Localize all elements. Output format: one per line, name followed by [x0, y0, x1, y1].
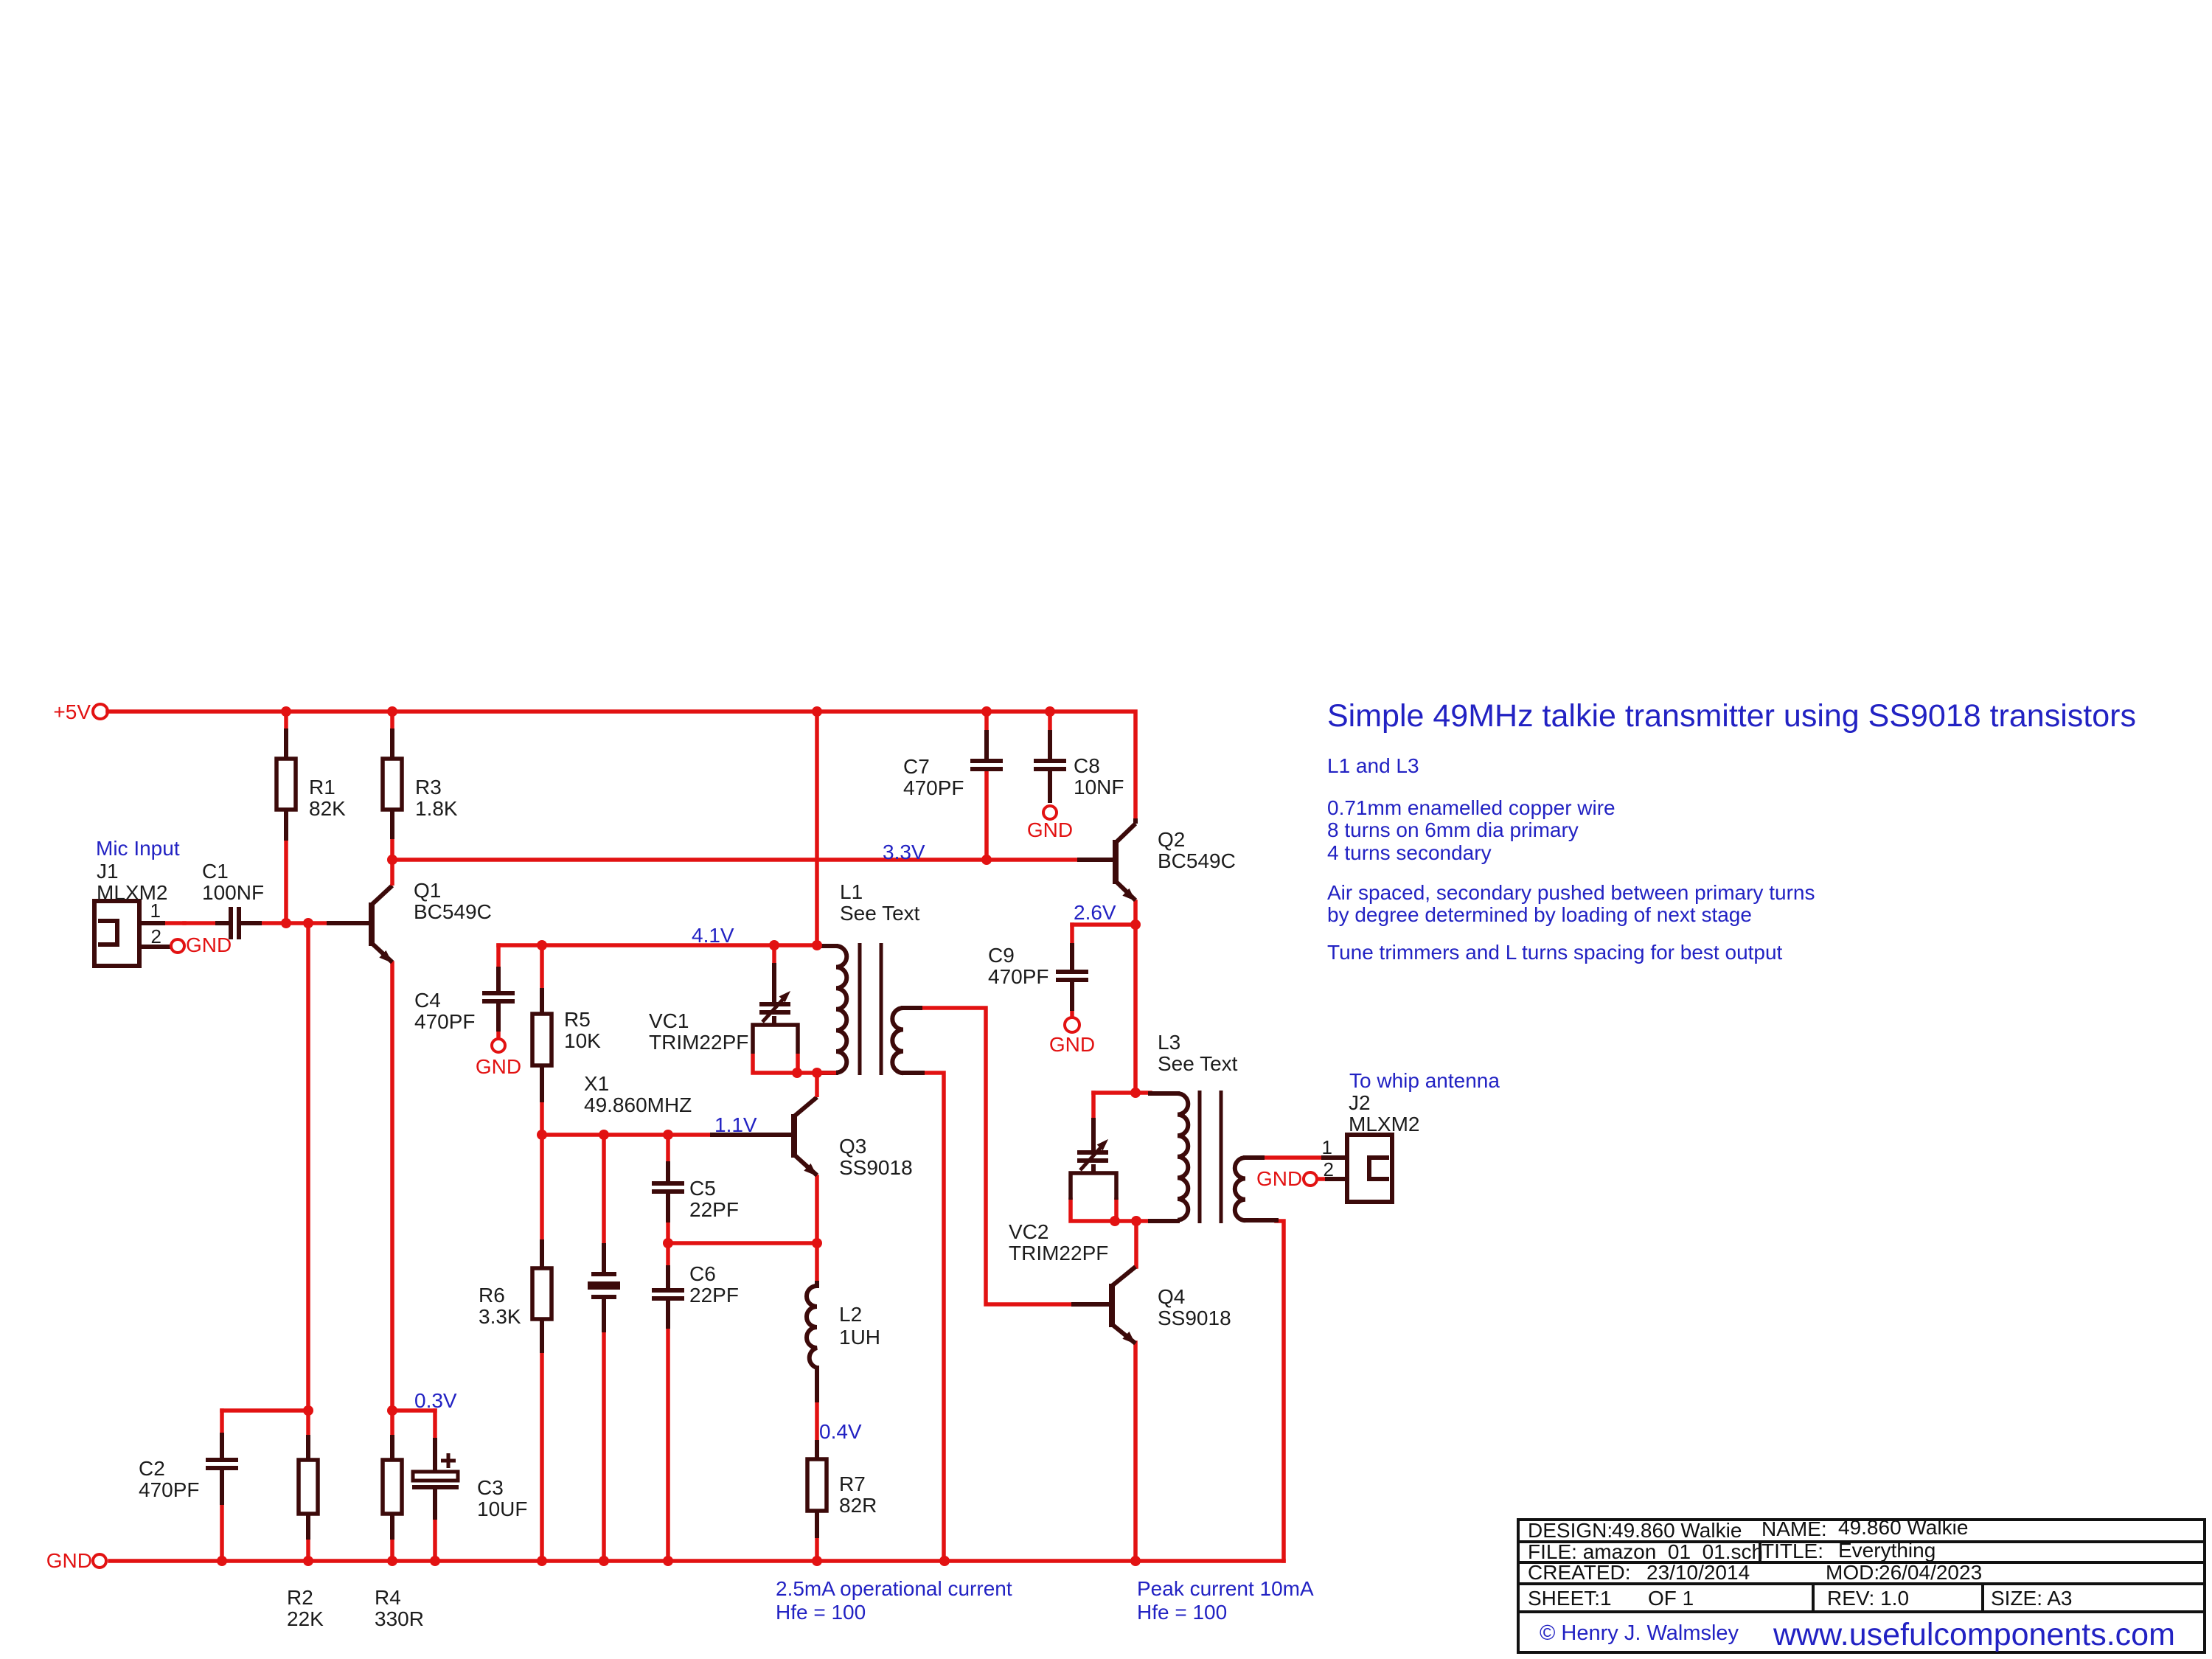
svg-text:470PF: 470PF	[139, 1478, 200, 1501]
label Peak current 10mA	[1137, 1577, 1314, 1624]
svg-text:2.6V: 2.6V	[1074, 901, 1116, 924]
title block row4	[1528, 1587, 2073, 1610]
resistor R6	[532, 1268, 552, 1319]
svg-text:J2: J2	[1349, 1091, 1371, 1114]
node +5V terminal	[93, 704, 108, 719]
svg-text:470PF: 470PF	[988, 965, 1049, 988]
note air spaced	[1327, 881, 1815, 926]
svg-text:J1: J1	[97, 860, 119, 883]
svg-text:X1: X1	[584, 1072, 609, 1095]
svg-text:C1: C1	[202, 860, 229, 883]
connector J1	[94, 901, 139, 966]
transformer L3	[1178, 1091, 1245, 1223]
label 3.3V	[883, 841, 925, 863]
label C4 470PF	[414, 989, 476, 1033]
wire L3 secondary bottom to GND	[1276, 1221, 1284, 1561]
svg-text:L2: L2	[839, 1303, 862, 1326]
transformer L1	[836, 943, 903, 1075]
label 2.5mA operational current	[776, 1577, 1012, 1624]
capacitor C4	[482, 993, 515, 1001]
resistor R4	[383, 1460, 402, 1514]
svg-text:C9: C9	[988, 944, 1015, 967]
svg-text:FILE: amazon_01_01.sch: FILE: amazon_01_01.sch	[1528, 1540, 1763, 1563]
label R4 330R	[375, 1586, 424, 1630]
svg-text:82K: 82K	[309, 797, 346, 820]
transistor Q4	[1112, 1267, 1135, 1343]
svg-text:© Henry J. Walmsley: © Henry J. Walmsley	[1540, 1621, 1739, 1645]
svg-text:NAME:: NAME:	[1761, 1517, 1827, 1540]
resistor R2	[299, 1460, 318, 1514]
title block row2	[1528, 1539, 1935, 1563]
wire +5V rail	[108, 712, 1135, 945]
wire 4.1V net	[498, 945, 817, 990]
label C1 100NF	[202, 860, 264, 904]
junction dots	[217, 706, 1141, 1566]
svg-text:22K: 22K	[287, 1607, 324, 1630]
transistor Q3	[794, 1074, 817, 1175]
svg-text:GND: GND	[1027, 818, 1073, 841]
wire R6 bottom to GND	[540, 1351, 544, 1561]
svg-text:2.5mA operational current: 2.5mA operational current	[776, 1577, 1012, 1600]
svg-text:R3: R3	[415, 776, 442, 799]
label R2 22K	[287, 1586, 324, 1630]
label 1.1V	[714, 1113, 757, 1136]
svg-text:MLXM2: MLXM2	[1349, 1113, 1419, 1135]
wire Q2 emitter 2.6V net and C9	[1072, 902, 1135, 1093]
svg-text:8 turns on 6mm dia primary: 8 turns on 6mm dia primary	[1327, 818, 1579, 841]
svg-text:100NF: 100NF	[202, 881, 264, 904]
svg-text:GND: GND	[1256, 1167, 1302, 1190]
svg-text:SS9018: SS9018	[839, 1156, 913, 1179]
label C7 470PF	[903, 755, 964, 799]
svg-text:Hfe = 100: Hfe = 100	[1137, 1601, 1227, 1624]
svg-text:R4: R4	[375, 1586, 401, 1609]
svg-text:Q4: Q4	[1158, 1285, 1185, 1308]
capacitor C5	[652, 1183, 684, 1192]
label Q1 BC549C	[414, 879, 492, 923]
capacitor C7	[970, 761, 1003, 769]
svg-text:GND: GND	[46, 1549, 92, 1572]
svg-text:REV: 1.0: REV: 1.0	[1827, 1587, 1909, 1610]
svg-text:GND: GND	[1049, 1033, 1095, 1056]
power +5V label	[53, 700, 91, 723]
svg-text:by degree determined by loadin: by degree determined by loading of next …	[1327, 903, 1752, 926]
svg-text:BC549C: BC549C	[1158, 849, 1236, 872]
wire L2 to R7 to GND	[815, 1400, 819, 1561]
label C8 10NF	[1074, 754, 1124, 799]
capacitor C8	[1034, 761, 1066, 769]
capacitor C9	[1056, 972, 1088, 980]
svg-text:C5: C5	[689, 1177, 716, 1200]
label L1 See Text	[840, 880, 920, 925]
wire J1 pin1 red segment	[163, 921, 184, 925]
capacitor C3 electrolytic	[412, 1453, 459, 1487]
svg-text:L3: L3	[1158, 1031, 1180, 1054]
ground C9	[1049, 1018, 1095, 1056]
ground GND rail label	[46, 1549, 92, 1572]
pin J2 1	[1322, 1136, 1332, 1158]
svg-text:Simple 49MHz talkie transmitte: Simple 49MHz talkie transmitter using SS…	[1327, 698, 2136, 734]
crystal X1	[588, 1274, 620, 1297]
svg-text:See Text: See Text	[840, 902, 920, 925]
svg-text:C8: C8	[1074, 754, 1100, 777]
label 0.4V	[819, 1420, 862, 1443]
label J2 MLXM2	[1349, 1091, 1419, 1135]
ground C4	[476, 1039, 521, 1078]
svg-text:SIZE: A3: SIZE: A3	[1991, 1587, 2073, 1610]
svg-text:470PF: 470PF	[903, 776, 964, 799]
label To whip antenna	[1349, 1069, 1500, 1092]
svg-text:www.usefulcomponents.com: www.usefulcomponents.com	[1773, 1617, 2175, 1652]
label Mic Input	[96, 837, 180, 860]
svg-text:2: 2	[151, 925, 161, 947]
svg-text:0.3V: 0.3V	[414, 1389, 457, 1412]
label L2 1UH	[839, 1303, 880, 1349]
wire tank top net	[1093, 1093, 1150, 1120]
wire L3 secondary to J2 pin1	[1262, 1155, 1324, 1160]
svg-text:1: 1	[150, 900, 161, 922]
svg-text:R5: R5	[564, 1008, 591, 1031]
svg-text:VC1: VC1	[649, 1009, 689, 1032]
title block	[1518, 1520, 2205, 1652]
svg-text:To whip antenna: To whip antenna	[1349, 1069, 1500, 1092]
wire Q4 emitter to GND	[1133, 1343, 1138, 1561]
svg-text:Q3: Q3	[839, 1135, 866, 1158]
wire tank bottom net	[1071, 1200, 1150, 1267]
wire dark component leads	[284, 731, 288, 759]
svg-text:49.860MHZ: 49.860MHZ	[584, 1093, 692, 1116]
wire C4 to GND stub	[496, 1029, 501, 1038]
title text	[1327, 698, 2136, 734]
transistor Q1	[372, 860, 392, 962]
label R6 3.3K	[479, 1284, 521, 1328]
transistor Q2	[1116, 818, 1135, 900]
label 0.3V	[414, 1389, 457, 1412]
wire 3.3V net	[392, 771, 1079, 860]
svg-text:R6: R6	[479, 1284, 505, 1307]
svg-text:See Text: See Text	[1158, 1052, 1238, 1075]
label VC2 TRIM22PF	[1009, 1220, 1108, 1265]
node GND terminal left	[93, 1554, 106, 1568]
svg-text:330R: 330R	[375, 1607, 424, 1630]
svg-text:C3: C3	[477, 1476, 504, 1499]
label C3 10UF	[477, 1476, 527, 1520]
ground J1 pin2	[171, 933, 232, 956]
svg-text:Q2: Q2	[1158, 828, 1185, 851]
resistor R1	[276, 759, 296, 810]
svg-text:1.8K: 1.8K	[415, 797, 458, 820]
label C6 22PF	[689, 1262, 739, 1307]
svg-text:CREATED:: CREATED:	[1528, 1561, 1631, 1584]
wire X1 bottom to GND	[602, 1330, 606, 1561]
svg-text:0.71mm enamelled copper wire: 0.71mm enamelled copper wire	[1327, 796, 1615, 819]
svg-text:TRIM22PF: TRIM22PF	[1009, 1242, 1108, 1265]
resistor R3	[383, 759, 402, 810]
svg-text:Tune trimmers and L turns spac: Tune trimmers and L turns spacing for be…	[1327, 941, 1783, 964]
wire Q3 emitter node	[668, 1177, 817, 1283]
pin J2 2	[1324, 1158, 1334, 1180]
label X1 49.860MHZ	[584, 1072, 692, 1116]
svg-text:10K: 10K	[564, 1029, 601, 1052]
svg-text:GND: GND	[186, 933, 232, 956]
svg-text:C7: C7	[903, 755, 930, 778]
svg-text:1: 1	[1322, 1136, 1332, 1158]
label C9 470PF	[988, 944, 1049, 988]
resistor R7	[807, 1459, 827, 1511]
note tuning	[1327, 941, 1783, 964]
capacitor C2	[206, 1460, 238, 1468]
wire Q1 emitter down 0.3V node	[392, 963, 435, 1561]
label Q3 SS9018	[839, 1135, 913, 1179]
svg-text:DESIGN:: DESIGN:	[1528, 1519, 1613, 1542]
label C5 22PF	[689, 1177, 739, 1221]
svg-text:C6: C6	[689, 1262, 716, 1285]
svg-text:3.3V: 3.3V	[883, 841, 925, 863]
svg-text:+5V: +5V	[53, 700, 91, 723]
label VC1 TRIM22PF	[649, 1009, 748, 1054]
capacitor C6	[652, 1290, 684, 1298]
title block logo	[1540, 1617, 2175, 1652]
svg-text:C2: C2	[139, 1457, 165, 1480]
svg-text:4.1V: 4.1V	[692, 924, 734, 947]
svg-text:VC2: VC2	[1009, 1220, 1048, 1243]
title block row1	[1528, 1516, 1968, 1542]
title block row3	[1528, 1561, 1982, 1584]
svg-text:10UF: 10UF	[477, 1498, 527, 1520]
label J1 MLXM2	[97, 860, 167, 904]
label 4.1V	[692, 924, 734, 947]
ground J2 pin2	[1256, 1167, 1317, 1190]
svg-text:Hfe = 100: Hfe = 100	[776, 1601, 866, 1624]
capacitor C1	[231, 907, 239, 939]
wire J2 pin2 GND stub	[1318, 1177, 1327, 1181]
inductor L2	[807, 1286, 817, 1368]
wire L1 secondary bottom to GND	[922, 1073, 944, 1561]
svg-text:470PF: 470PF	[414, 1010, 476, 1033]
svg-text:SS9018: SS9018	[1158, 1307, 1231, 1329]
svg-text:22PF: 22PF	[689, 1284, 739, 1307]
svg-text:23/10/2014: 23/10/2014	[1646, 1561, 1750, 1584]
svg-text:49.860 Walkie: 49.860 Walkie	[1612, 1519, 1742, 1542]
label Q2 BC549C	[1158, 828, 1236, 872]
connector J2	[1347, 1135, 1392, 1202]
label R7 82R	[839, 1472, 877, 1517]
svg-text:R7: R7	[839, 1472, 866, 1495]
svg-text:10NF: 10NF	[1074, 776, 1124, 799]
trimmer capacitor VC2	[1071, 1140, 1116, 1200]
wire C6 bottom to GND	[666, 1326, 670, 1561]
svg-text:49.860 Walkie: 49.860 Walkie	[1838, 1516, 1968, 1539]
label R5 10K	[564, 1008, 601, 1052]
wire L1 secondary to Q4 base	[920, 1008, 1074, 1304]
label Q4 SS9018	[1158, 1285, 1231, 1329]
wire Q1 base net (C1 to Q1, down to R2/C2)	[184, 923, 329, 1561]
label L3 See Text	[1158, 1031, 1238, 1075]
label 2.6V	[1074, 901, 1116, 924]
svg-text:22PF: 22PF	[689, 1198, 739, 1221]
svg-text:TRIM22PF: TRIM22PF	[649, 1031, 748, 1054]
svg-text:R1: R1	[309, 776, 335, 799]
svg-text:C4: C4	[414, 989, 441, 1012]
svg-text:MOD:: MOD:	[1826, 1561, 1879, 1584]
svg-text:TITLE:: TITLE:	[1761, 1540, 1823, 1562]
svg-text:L1 and L3: L1 and L3	[1327, 754, 1419, 777]
svg-text:Air spaced, secondary pushed b: Air spaced, secondary pushed between pri…	[1327, 881, 1815, 904]
svg-text:0.4V: 0.4V	[819, 1420, 862, 1443]
svg-text:SHEET:1: SHEET:1	[1528, 1587, 1612, 1610]
label R1 82K	[309, 776, 346, 820]
wire 1.1V net	[542, 1100, 712, 1245]
wire GND rail	[110, 1559, 1284, 1563]
svg-text:2: 2	[1324, 1158, 1334, 1180]
svg-text:4 turns secondary: 4 turns secondary	[1327, 841, 1492, 864]
svg-text:Mic Input: Mic Input	[96, 837, 180, 860]
svg-text:Peak current 10mA: Peak current 10mA	[1137, 1577, 1314, 1600]
svg-text:3.3K: 3.3K	[479, 1305, 521, 1328]
svg-text:1.1V: 1.1V	[714, 1113, 757, 1136]
svg-text:OF 1: OF 1	[1648, 1587, 1694, 1610]
svg-text:1UH: 1UH	[839, 1326, 880, 1349]
svg-text:GND: GND	[476, 1055, 521, 1078]
pin J1 2	[151, 925, 161, 947]
label R3 1.8K	[415, 776, 458, 820]
svg-text:Q1: Q1	[414, 879, 441, 902]
svg-text:82R: 82R	[839, 1494, 877, 1517]
note L1 and L3	[1327, 754, 1419, 777]
resistor R5	[532, 1014, 552, 1065]
svg-text:BC549C: BC549C	[414, 900, 492, 923]
trimmer capacitor VC1	[753, 992, 836, 1073]
svg-text:L1: L1	[840, 880, 863, 903]
svg-text:26/04/2023: 26/04/2023	[1879, 1561, 1982, 1584]
pin J1 1	[150, 900, 161, 922]
label C2 470PF	[139, 1457, 200, 1501]
ground C8	[1027, 806, 1073, 841]
svg-text:R2: R2	[287, 1586, 313, 1609]
svg-text:Everything: Everything	[1838, 1539, 1935, 1562]
note winding details	[1327, 796, 1615, 864]
